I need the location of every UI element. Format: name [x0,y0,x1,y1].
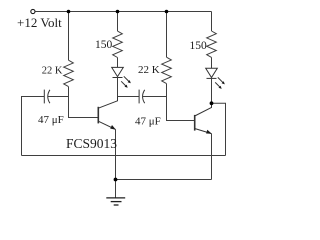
junction Q2 collector [210,101,214,105]
wire feedback left up to C1 [22,97,45,156]
wire R2 to LED1 [117,58,119,68]
wire Q1 collector node to C2 [118,96,140,98]
svg-text:150: 150 [190,40,208,52]
wire C2 to node B [143,96,167,98]
wire node A to Q1 base [69,97,98,118]
capacitor C1 47uF left [44,90,50,104]
wire C1 to node A [48,96,69,98]
wire Q1 emitter down to ground node [115,129,117,179]
transistor Q2 FCS9013 [195,103,212,133]
wire ground rail [116,179,212,181]
wire LED2 to Q2 collector node [211,78,213,103]
svg-text:22 K: 22 K [138,64,160,76]
capacitor C2 47uF right [139,90,145,104]
junction top rail at R1 [67,10,71,14]
LED D1 [112,67,131,87]
wire node B to Q2 base [167,97,195,121]
terminal +12V [31,9,35,13]
junction ground node [114,178,118,182]
wire R4 to LED2 [211,57,213,68]
wire R1 to node A [68,87,70,97]
wire Q2 emitter down [211,134,213,180]
wire LED1 to Q1 collector node [117,78,119,97]
wire branch R1 [68,12,70,61]
ground [106,198,125,205]
wire feedback bottom [22,155,226,157]
wire branch R3 [166,12,168,58]
resistor R2 150 left [113,31,123,57]
svg-text:47 μF: 47 μF [135,116,161,128]
svg-text:47 μF: 47 μF [38,114,64,126]
junction top rail at R3 [165,10,169,14]
wire top rail [35,11,211,13]
resistor R3 22K right [162,57,172,83]
resistor R4 150 right [207,31,217,57]
resistor R1 22K left [64,60,74,86]
LED D2 [206,68,225,89]
wire ground node to ground [115,180,117,198]
svg-text:FCS9013: FCS9013 [66,136,117,151]
svg-text:150: 150 [95,39,113,51]
wire branch R2 [117,12,119,32]
wire Q2 collector feedback right [212,103,226,155]
transistor Q1 FCS9013 [98,97,117,130]
wire R3 to node B [166,84,168,97]
svg-text:22 K: 22 K [42,66,63,77]
junction top rail at R2 [116,10,120,14]
svg-text:+12 Volt: +12 Volt [17,15,62,30]
wire branch R4 [211,12,213,32]
